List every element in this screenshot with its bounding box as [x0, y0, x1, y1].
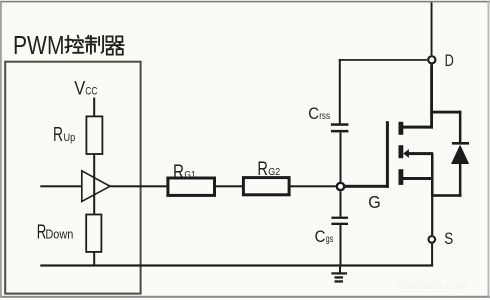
svg-text:S: S [444, 230, 453, 248]
frame top [0, 1, 490, 3]
wire buffer input [40, 185, 82, 187]
svg-text:R: R [53, 123, 63, 146]
PWM controller box [5, 62, 140, 294]
transistor Q1 source lead [401, 177, 434, 180]
svg-text:G2: G2 [268, 166, 280, 178]
svg-text:G: G [368, 192, 381, 212]
wire Vcc to R_Up [93, 98, 95, 117]
svg-text:Up: Up [64, 132, 76, 144]
svg-text:G1: G1 [184, 170, 196, 181]
wire gate thick [345, 185, 389, 188]
wire drain vertical [430, 64, 433, 128]
svg-text:D: D [445, 52, 454, 70]
resistor R_Up [86, 116, 102, 154]
diode D1 body [451, 145, 469, 164]
svg-text:Down: Down [45, 227, 73, 241]
frame bottom [0, 296, 490, 298]
wire Cgs to ground rail [340, 225, 342, 267]
svg-text:gs: gs [326, 233, 334, 245]
wire Crss top to D rail [339, 59, 341, 124]
wire node to Crss up [340, 132, 342, 182]
wire below node S [431, 244, 433, 266]
wire source rail to node S [431, 197, 433, 235]
resistor RG2 [243, 178, 289, 195]
svg-text:C: C [315, 228, 326, 246]
transistor Q1 channel top [399, 122, 404, 135]
wire buffer output to node G [110, 185, 336, 187]
diode branch top wire [430, 111, 461, 114]
svg-text:V: V [74, 78, 85, 100]
svg-text:PWM: PWM [13, 32, 65, 60]
node G [337, 183, 344, 190]
wire body/source vertical [431, 153, 434, 197]
ground [339, 267, 341, 273]
op-amp buffer U1 [82, 171, 110, 202]
frame left [0, 1, 2, 298]
svg-text:CC: CC [85, 86, 97, 98]
label 控 (kong) [65, 36, 83, 53]
transistor Q1 channel bottom [399, 169, 404, 185]
wire drain top [431, 2, 433, 55]
svg-text:C: C [308, 105, 319, 123]
svg-text:R: R [173, 161, 184, 183]
diode cathode bar [452, 142, 469, 145]
label 器 (qi) [106, 36, 124, 54]
node D [428, 56, 435, 63]
wire ground rail bottom [40, 264, 433, 266]
transistor Q1 channel mid [399, 145, 404, 158]
svg-text:rss: rss [319, 110, 330, 122]
transistor Q1 gate plate [386, 121, 389, 188]
transistor Q1 drain lead [401, 126, 433, 129]
node S [429, 236, 436, 243]
frame right [488, 1, 490, 297]
wire R_Up through buffer to R_Down [93, 154, 95, 215]
capacitor Crss [331, 123, 349, 126]
svg-text:R: R [257, 158, 268, 180]
wire node to Cgs [340, 191, 342, 216]
resistor RG1 [168, 178, 215, 195]
wire R_Down to ground rail [93, 252, 95, 266]
capacitor Cgs [331, 217, 348, 219]
label 制 (zhi) [86, 36, 104, 54]
resistor R_Down [86, 215, 101, 252]
svg-text:elecfans.com: elecfans.com [398, 278, 469, 292]
transistor Q1 body arrow [403, 149, 409, 158]
diode anode wire [459, 164, 462, 197]
